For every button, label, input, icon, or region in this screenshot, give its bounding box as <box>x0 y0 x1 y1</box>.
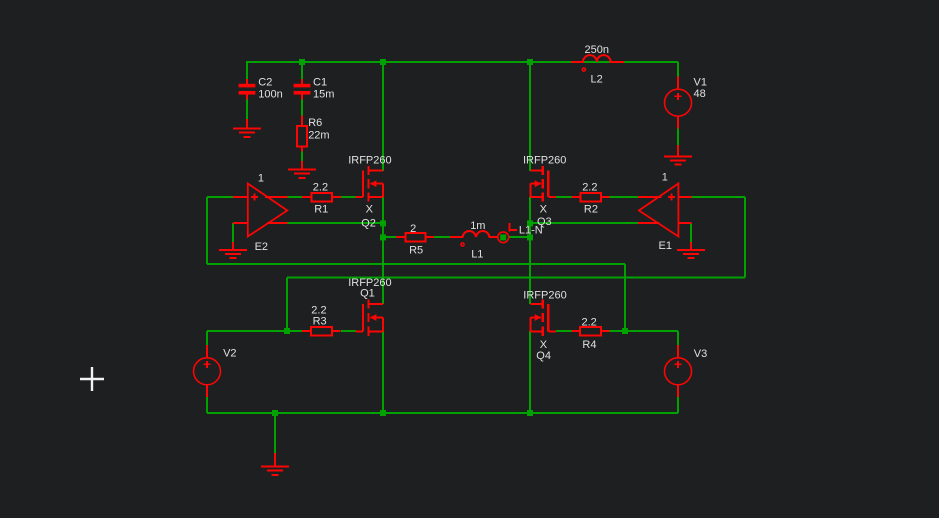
wire Q4 gate to R4 <box>556 330 572 332</box>
svg-text:X: X <box>540 339 548 351</box>
wire E2 out to R1 <box>287 196 303 198</box>
svg-text:48: 48 <box>694 88 706 100</box>
ground E2 minus input <box>219 242 247 258</box>
svg-text:2: 2 <box>410 223 416 235</box>
svg-text:250n: 250n <box>585 44 609 56</box>
svg-text:R4: R4 <box>582 339 596 351</box>
wire C1 to R6 <box>301 99 303 116</box>
wire node to R5 <box>383 236 396 238</box>
svg-text:R5: R5 <box>409 245 423 257</box>
svg-text:C1: C1 <box>313 76 327 88</box>
svg-text:V1: V1 <box>694 76 707 88</box>
voltage source V3 <box>665 345 708 397</box>
ground bottom rail <box>261 453 289 475</box>
transistor Q4 <box>523 289 566 362</box>
wire C2 bottom to ground <box>246 99 248 120</box>
junction bottom rail left column <box>380 410 386 416</box>
svg-text:C2: C2 <box>258 76 272 88</box>
op-amp E1 <box>638 172 691 253</box>
junction bottom rail right column <box>527 410 533 416</box>
wire E2 plus input <box>207 196 234 198</box>
wire bottom ground tap <box>274 413 276 453</box>
junction left output node upper <box>380 220 386 226</box>
node L1-N label flag <box>509 223 542 237</box>
wire Q3 gate to R2 <box>556 196 572 198</box>
junction R4 node <box>622 328 628 334</box>
junction left output node lower <box>380 234 386 240</box>
ground below C2 <box>233 119 261 137</box>
wire junction to V3 <box>625 330 678 332</box>
wire right column top <box>529 62 531 171</box>
junction right output node upper <box>527 220 533 226</box>
capacitor C1 <box>294 76 335 100</box>
svg-text:2.2: 2.2 <box>582 317 597 329</box>
svg-text:2.2: 2.2 <box>582 181 597 193</box>
svg-text:2.2: 2.2 <box>313 181 328 193</box>
junction R3 node <box>284 328 290 334</box>
wire E2 out bottom to node <box>287 222 383 224</box>
ground E1 minus input <box>677 242 705 258</box>
wire R2 to E1 out <box>609 196 638 198</box>
wire E1 minus to ground <box>690 223 692 242</box>
svg-text:L2: L2 <box>591 74 603 86</box>
capacitor C2 <box>239 76 283 100</box>
inductor L2 <box>571 44 624 86</box>
ground below V1 <box>664 145 692 165</box>
voltage source V1 <box>665 76 707 128</box>
wire left column bottom <box>382 331 384 413</box>
op-amp E2 <box>233 173 288 254</box>
wire L1 node to right column <box>509 236 531 238</box>
wire left column top <box>382 62 384 171</box>
node L1-N circle marker <box>498 232 509 243</box>
wire C1 top <box>301 62 303 79</box>
wire V2 top <box>206 331 208 346</box>
wire R4 to junction <box>609 330 625 332</box>
transistor Q3 <box>523 154 566 228</box>
wire right column middle <box>529 197 531 304</box>
wire R3 to Q1 gate <box>341 330 356 332</box>
svg-text:R2: R2 <box>584 204 598 216</box>
resistor R2 <box>572 181 610 215</box>
resistor R6 <box>297 116 329 152</box>
transistor Q2 <box>348 154 391 229</box>
svg-text:V3: V3 <box>694 348 707 360</box>
svg-text:V2: V2 <box>223 348 236 360</box>
junction right column top rail <box>527 59 533 65</box>
svg-text:L1: L1 <box>471 249 483 261</box>
wire top rail <box>246 61 678 63</box>
resistor R3 <box>302 305 341 336</box>
svg-text:Q3: Q3 <box>537 216 552 228</box>
wire V1 top <box>677 62 679 77</box>
svg-text:E2: E2 <box>255 241 268 253</box>
svg-text:22m: 22m <box>308 129 329 141</box>
svg-text:X: X <box>366 204 374 216</box>
wire V1 bottom to ground <box>677 128 679 146</box>
wire E2 minus to ground <box>232 223 234 242</box>
wire rail to R3 node vertical <box>286 278 288 332</box>
svg-text:Q4: Q4 <box>536 350 551 362</box>
svg-text:Q1: Q1 <box>360 287 375 299</box>
junction L1 right node <box>500 234 506 240</box>
wire right column bottom <box>529 331 531 413</box>
wire L1-N node to E1 out bottom <box>530 222 638 224</box>
wire R1 to Q2 gate <box>341 196 356 198</box>
wire bottom rail <box>207 412 678 414</box>
svg-text:X: X <box>540 204 548 216</box>
wire rail to R4 node vertical <box>624 264 626 331</box>
svg-text:IRFP260: IRFP260 <box>523 154 566 166</box>
inductor L1 <box>450 220 498 260</box>
junction C1 top rail <box>299 59 305 65</box>
svg-text:R1: R1 <box>314 204 328 216</box>
svg-text:1: 1 <box>662 172 668 184</box>
wire V2 bottom <box>206 396 208 413</box>
transistor Q1 <box>348 277 391 336</box>
svg-text:IRFP260: IRFP260 <box>348 154 391 166</box>
svg-text:15m: 15m <box>313 89 334 101</box>
junction right output node lower <box>527 234 533 240</box>
svg-text:1: 1 <box>258 173 264 185</box>
svg-text:E1: E1 <box>659 240 672 252</box>
wire R5 to L1 <box>434 236 450 238</box>
voltage source V2 <box>194 345 237 397</box>
svg-text:Q2: Q2 <box>361 217 376 229</box>
wire mid rail upper <box>207 263 625 265</box>
cursor crosshair <box>80 367 104 391</box>
svg-text:R6: R6 <box>308 117 322 129</box>
wire E2 plus input vertical <box>206 197 208 264</box>
resistor R5 <box>396 223 434 256</box>
resistor R4 <box>572 317 610 351</box>
svg-text:IRFP260: IRFP260 <box>523 289 566 301</box>
svg-text:100n: 100n <box>258 89 282 101</box>
wire V2 to R3 node <box>207 330 303 332</box>
ground below R6 <box>288 161 316 178</box>
wire V3 top <box>677 331 679 346</box>
wire E1 plus vertical right <box>744 197 746 278</box>
wire V3 bottom <box>677 396 679 413</box>
junction bottom rail ground <box>272 410 278 416</box>
wire R6 to ground <box>301 151 303 161</box>
wire C2 top <box>246 62 248 79</box>
junction left column top rail <box>380 59 386 65</box>
resistor R1 <box>302 181 341 215</box>
wire E1 plus input right <box>691 196 745 198</box>
svg-text:1m: 1m <box>470 220 485 232</box>
wire left column middle <box>382 197 384 304</box>
wire mid rail lower <box>287 277 745 279</box>
svg-text:R3: R3 <box>313 316 327 328</box>
